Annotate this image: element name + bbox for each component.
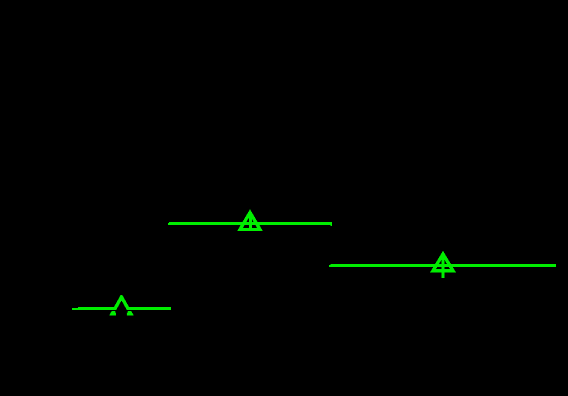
bin 2 right end nub <box>331 225 333 226</box>
marker M3 vertical error bar <box>442 254 445 278</box>
bin 2 leading stub <box>168 223 169 225</box>
bin 3 leading stub <box>329 265 331 267</box>
marker M2 vertical error bar <box>249 212 252 230</box>
bin 3 horizontal line <box>331 264 557 267</box>
bin 1 horizontal line left part <box>78 307 116 310</box>
marker M2 triangle <box>240 213 260 230</box>
bin 2 horizontal line <box>169 222 332 225</box>
bin 1 leading stub <box>72 308 78 310</box>
bin 1 horizontal line right part <box>127 307 171 310</box>
marker M3 triangle <box>433 254 453 271</box>
marker M1 triangle (bottom-middle erased) <box>112 297 131 314</box>
